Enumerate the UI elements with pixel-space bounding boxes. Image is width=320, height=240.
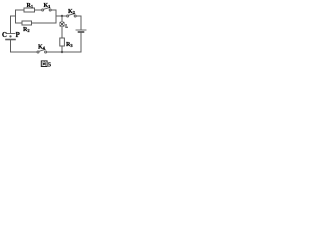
svg-text:K2: K2 <box>68 9 76 15</box>
wire: right merge bar <box>55 10 57 23</box>
wire: battery to bottom right corner <box>80 33 82 52</box>
battery negative plate <box>79 31 84 33</box>
wire: R2 to right merge bar <box>32 22 57 24</box>
wire: lamp to R3 <box>61 27 63 38</box>
node junction dot bottom <box>61 51 63 53</box>
lamp L <box>59 22 64 27</box>
wire: left merge bar <box>15 10 17 23</box>
particle P dot <box>9 35 11 37</box>
caption 图5 <box>41 61 51 69</box>
svg-text:P: P <box>16 32 20 39</box>
wire: lower branch left stub <box>16 22 23 24</box>
wire: R3 to bottom wire <box>61 46 63 52</box>
wire: middle tap to node <box>56 15 62 17</box>
svg-text:5: 5 <box>48 62 51 69</box>
wire: node down to lamp <box>61 16 63 22</box>
resistor R2 <box>22 21 32 25</box>
capacitor C top plate <box>6 33 15 35</box>
svg-text:R2: R2 <box>23 27 30 33</box>
svg-text:R3: R3 <box>66 42 73 48</box>
wire: K2 to right edge <box>76 16 81 29</box>
svg-text:L: L <box>65 24 68 29</box>
wire: capacitor to bottom left corner <box>10 40 12 52</box>
switch K2 <box>67 15 69 17</box>
switch K1 <box>42 9 44 11</box>
capacitor C bottom plate <box>6 39 15 41</box>
battery positive plate <box>76 29 86 31</box>
wire: bottom right run <box>47 51 81 53</box>
wire: top branch left stub <box>16 9 25 11</box>
wire: bottom left run <box>11 51 38 53</box>
wire: node to K2 <box>63 15 67 17</box>
wire: K1 to right merge bar <box>51 9 56 11</box>
wire: R1 to K1 <box>35 9 42 11</box>
node junction dot top <box>61 15 63 17</box>
svg-text:K1: K1 <box>44 3 52 9</box>
resistor R1 <box>24 8 35 12</box>
svg-text:C: C <box>2 32 7 39</box>
svg-text:R1: R1 <box>27 3 34 9</box>
wire: middle tap to capacitor branch <box>11 16 16 33</box>
switch K4 <box>37 51 39 53</box>
svg-text:K4: K4 <box>38 45 46 51</box>
resistor R3 <box>60 38 65 46</box>
